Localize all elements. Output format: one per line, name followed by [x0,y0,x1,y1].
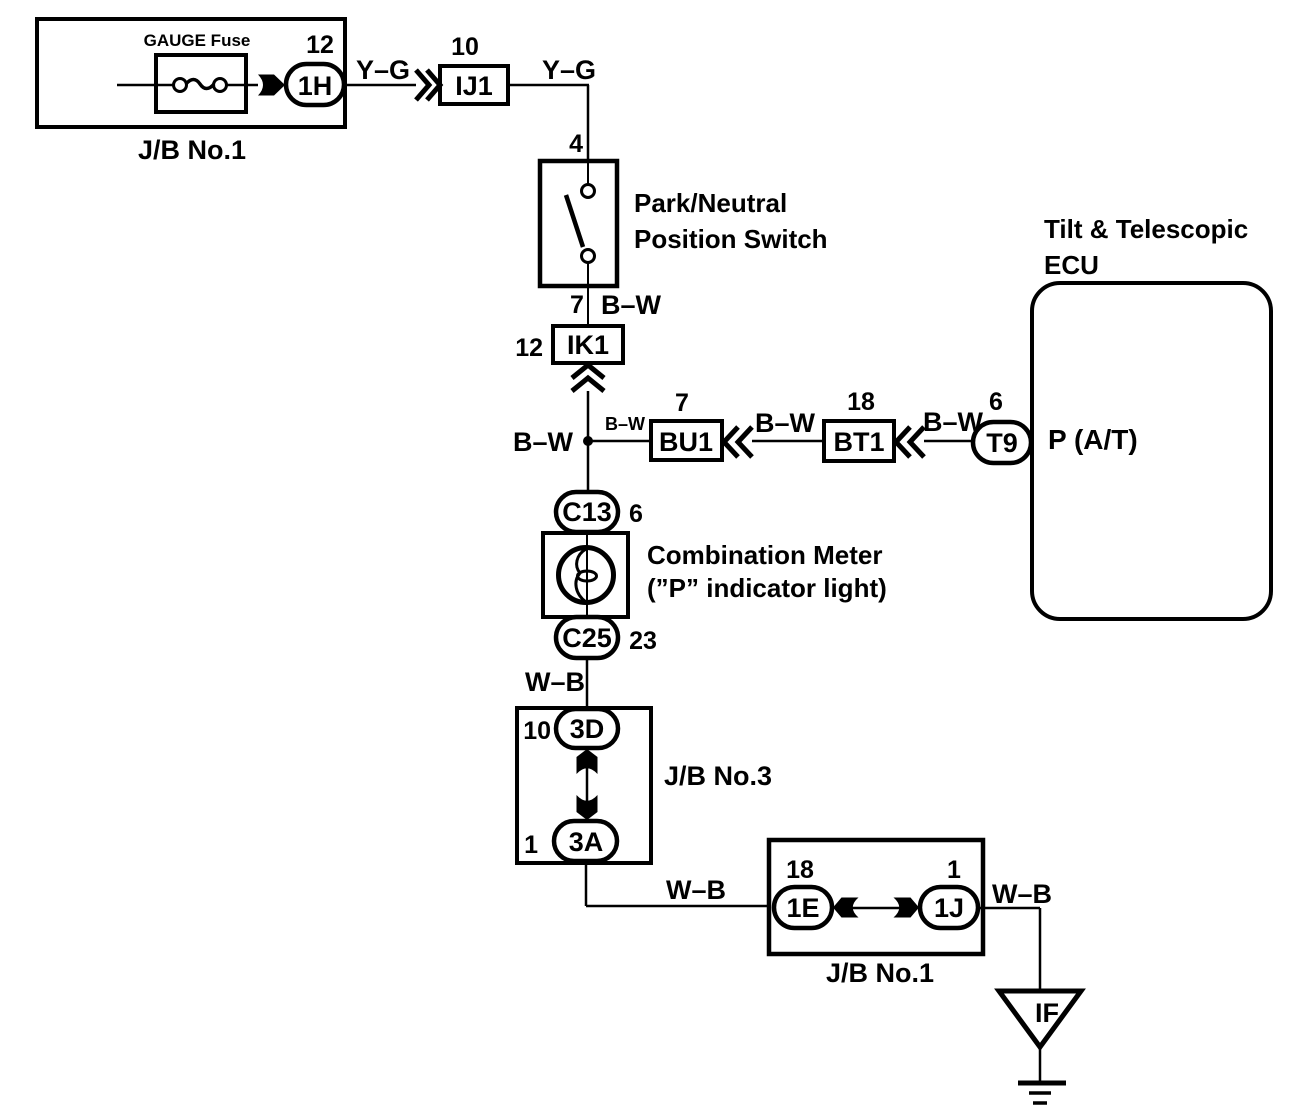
wire label B-W [601,290,662,320]
pin 10 label [451,33,479,61]
pin 7 label (BU1) [675,389,689,417]
pin 18 label (1E) [786,856,814,884]
wire label B-W (small, above wire) [605,414,645,434]
svg-text:6: 6 [989,388,1003,416]
label P (A/T) [1048,424,1138,455]
svg-text:IJ1: IJ1 [455,71,493,101]
combination meter box [543,533,628,617]
svg-text:10: 10 [523,717,551,745]
svg-text:7: 7 [570,291,584,319]
wire junction to BU1 [588,440,651,443]
caption J/B No.1 (bottom) [826,958,934,988]
junction block J/B No.3 [517,708,651,863]
connector 3A [554,821,617,861]
pin 6 label (C13) [629,500,643,528]
wire switch to IK1 [587,286,589,326]
svg-text:3D: 3D [570,714,605,744]
caption J/B No.3 [664,761,772,791]
svg-text:W–B: W–B [992,879,1052,909]
wire label Y-G (2) [542,55,596,85]
indicator bulb [559,533,614,617]
wire BU1 to BT1 [752,440,824,443]
wire label W-B [525,667,585,697]
connector T9 [973,422,1031,463]
ground connector IF [999,991,1081,1047]
svg-text:7: 7 [675,389,689,417]
svg-text:IK1: IK1 [567,330,609,360]
inline chevron left after BU1 [724,427,752,457]
connector BU1 [651,421,722,460]
junction block J/B No.1 (top) [37,19,345,127]
svg-text:1: 1 [524,831,538,859]
svg-text:BU1: BU1 [659,427,713,457]
bus arrows (3D-3A) [577,749,598,820]
node junction [583,436,593,446]
pin 7 label [570,291,584,319]
connector IK1 [553,326,623,363]
wire BT1 to T9 [924,440,973,443]
svg-text:J/B No.1: J/B No.1 [826,958,934,988]
wire label W-B (bottom left) [666,875,726,905]
wire 3A to J/B No.1 [586,861,769,906]
svg-text:J/B No.3: J/B No.3 [664,761,772,791]
svg-text:12: 12 [306,31,334,59]
svg-text:23: 23 [629,627,657,655]
wire label B-W (mid) [755,408,816,438]
svg-text:Y–G: Y–G [356,55,410,85]
svg-text:Y–G: Y–G [542,55,596,85]
svg-text:1E: 1E [786,893,819,923]
svg-text:GAUGE Fuse: GAUGE Fuse [144,31,251,50]
Tilt & Telescopic ECU block [1032,283,1271,619]
svg-text:J/B No.1: J/B No.1 [138,135,246,165]
svg-text:18: 18 [786,856,814,884]
fuse box [156,55,246,112]
pin 1 label (1J) [947,856,961,884]
pin 23 label (C25) [629,627,657,655]
svg-text:B–W: B–W [513,427,574,457]
wire label B-W (left of junction) [513,427,574,457]
wire 1H to chevron [344,84,416,87]
pin 6 label (T9) [989,388,1003,416]
pin 12 label (IK1) [515,334,543,362]
svg-text:B–W: B–W [605,414,645,434]
wire IK1 to junction [587,391,590,492]
wire IJ1 to switch [508,85,589,161]
connector C13 [556,492,618,532]
wire 1J to ground connector [978,908,1040,991]
junction block J/B No.1 (bottom) [769,840,983,954]
svg-text:B–W: B–W [601,290,662,320]
svg-text:3A: 3A [569,827,604,857]
svg-text:1H: 1H [298,71,333,101]
svg-text:(”P” indicator light): (”P” indicator light) [647,573,887,603]
svg-text:W–B: W–B [666,875,726,905]
svg-text:1: 1 [947,856,961,884]
svg-text:ECU: ECU [1044,250,1099,280]
connector C25 [556,617,618,658]
inline chevron right [416,70,440,100]
wire label W-B (right) [992,879,1052,909]
connector IJ1 [440,66,508,104]
arrow into 1H [258,75,285,96]
park/neutral position switch [540,161,617,286]
svg-text:B–W: B–W [755,408,816,438]
connector BT1 [824,421,894,461]
inline chevron left after BT1 [896,427,924,457]
pin 10 label (3D) [523,717,551,745]
wire into fuse [117,84,174,87]
wire C25 to J/B No.3 [586,658,589,709]
svg-text:1J: 1J [934,893,964,923]
connector 1J [920,887,978,928]
svg-text:W–B: W–B [525,667,585,697]
switch caption [634,188,828,254]
svg-text:Combination Meter: Combination Meter [647,540,882,570]
svg-text:C25: C25 [562,623,612,653]
svg-text:BT1: BT1 [833,427,884,457]
meter caption [647,540,887,603]
wire IF to ground [1039,1047,1042,1082]
ground symbol [1018,1083,1066,1103]
svg-text:Tilt & Telescopic: Tilt & Telescopic [1044,214,1248,244]
ECU caption [1044,214,1248,280]
wire label Y-G [356,55,410,85]
inline chevron up (double) [572,365,604,391]
svg-text:10: 10 [451,33,479,61]
label GAUGE Fuse [144,31,251,50]
svg-text:IF: IF [1035,998,1059,1028]
svg-text:Park/Neutral: Park/Neutral [634,188,787,218]
pin 18 label (BT1) [847,388,875,416]
svg-text:12: 12 [515,334,543,362]
svg-text:P (A/T): P (A/T) [1048,424,1138,455]
bus arrows (1E-1J) [833,898,919,918]
svg-text:6: 6 [629,500,643,528]
svg-text:18: 18 [847,388,875,416]
caption J/B No.1 [138,135,246,165]
pin 4 label [569,130,583,158]
wire label B-W (right) [923,407,984,437]
svg-text:T9: T9 [986,428,1018,458]
svg-text:C13: C13 [562,497,612,527]
svg-text:Position Switch: Position Switch [634,224,828,254]
connector 1E [774,887,832,928]
pin 12 label [306,31,334,59]
connector 3D [556,709,618,748]
svg-text:4: 4 [569,130,583,158]
fuse element [174,79,259,92]
connector 1H [286,64,344,105]
pin 1 label (3A) [524,831,538,859]
